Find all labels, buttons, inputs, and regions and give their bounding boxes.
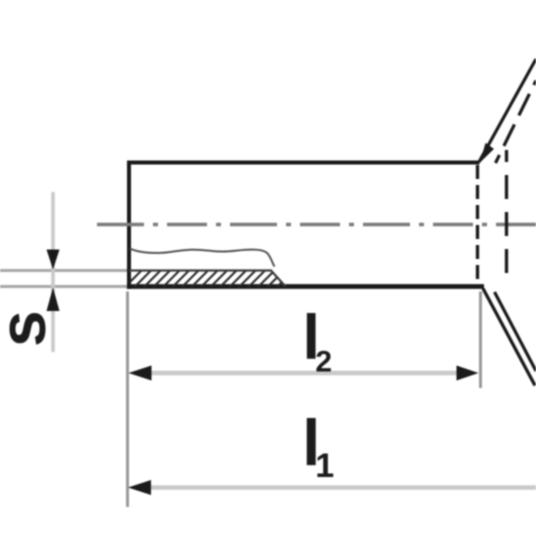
svg-text:2: 2 [315,346,332,379]
s upper arrowhead [47,250,60,270]
svg-text:s: s [0,310,59,347]
centerline (axis, dash-dot) [97,223,536,226]
l1 left arrowhead [128,480,151,495]
arrowhead at funnel entry corner [480,143,494,163]
s upper extension line [0,269,127,272]
hidden transition edge, dashed vertical 1 [476,165,479,287]
dimension line l1 [140,485,536,490]
section hatching of tube wall [122,268,306,290]
funnel outer edge, lower solid diagonal [483,289,535,386]
s lower extension line [0,285,127,288]
break (wavy) line of crimp zone [130,249,275,267]
s dimension line (vertical) [51,192,55,352]
funnel outer edge, upper solid diagonal [479,59,536,162]
l2 right arrowhead [457,366,479,381]
right extension line (tube end) [479,292,482,389]
dimension line l2 [140,371,468,376]
hidden transition edge, dashed vertical 2 [505,150,508,284]
inner bottom surface line [129,271,286,287]
s lower arrowhead [47,288,60,312]
svg-text:1: 1 [315,447,334,485]
l2 left arrowhead [129,366,152,381]
left extension line [126,292,129,508]
ferrule tube body outline [127,163,484,290]
funnel inner edge, upper dashed diagonal [496,81,536,164]
funnel inner edge, lower solid diagonal [495,292,536,371]
